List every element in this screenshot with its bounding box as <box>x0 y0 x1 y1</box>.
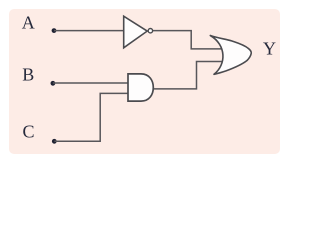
svg-text:Y: Y <box>263 39 276 59</box>
wire B to AND top input <box>53 82 128 84</box>
svg-text:B: B <box>22 65 34 85</box>
AND gate U2 <box>128 74 153 101</box>
node A (input terminal dot) <box>52 28 57 33</box>
wire NOT output to OR top input <box>153 31 222 49</box>
wire A to NOT gate input <box>54 30 124 32</box>
svg-text:A: A <box>22 13 35 33</box>
wire C to AND bottom input <box>54 93 128 141</box>
svg-text:C: C <box>23 122 35 142</box>
NOT gate output bubble <box>148 29 152 33</box>
wire AND output to OR bottom input <box>153 62 222 89</box>
OR gate U3 <box>210 36 251 75</box>
NOT gate U1 (inverter triangle) <box>124 16 148 48</box>
node B (input terminal dot) <box>51 81 56 86</box>
node C (input terminal dot) <box>52 139 57 144</box>
pink panel background <box>9 9 281 154</box>
